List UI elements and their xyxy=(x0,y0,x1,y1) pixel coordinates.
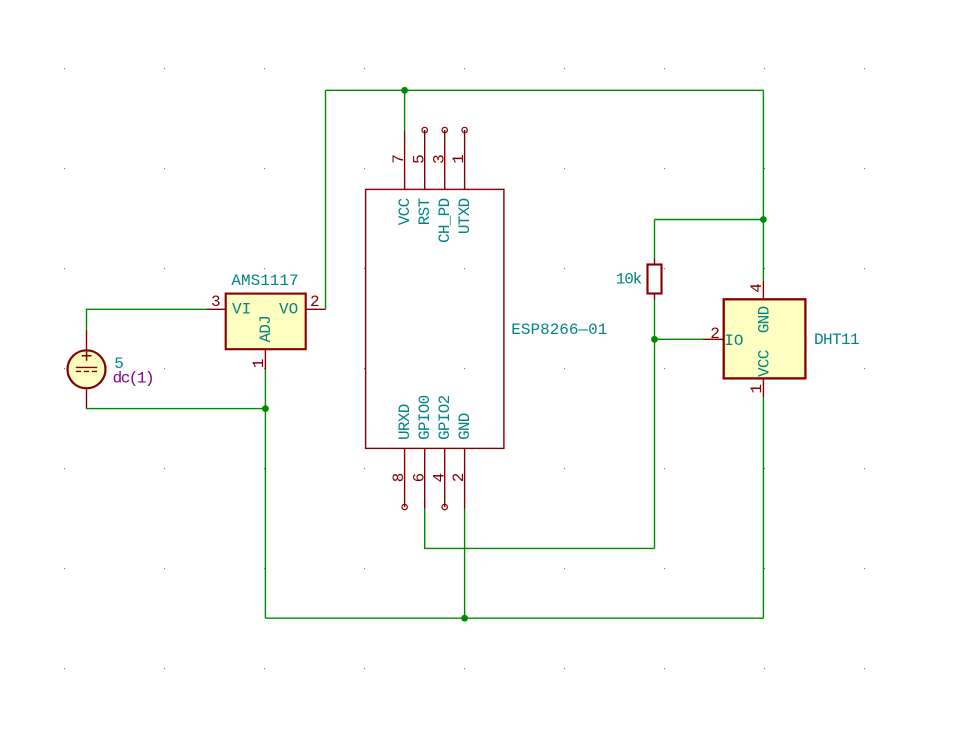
regulator U2 AMS1117 xyxy=(207,294,326,370)
svg-text:CH_PD: CH_PD xyxy=(436,198,454,243)
grid dots xyxy=(64,68,865,669)
svg-text:7: 7 xyxy=(390,154,408,164)
svg-text:UTXD: UTXD xyxy=(456,198,474,234)
junction at ADJ / source bottom xyxy=(262,405,269,412)
wire source bottom xyxy=(87,407,266,408)
svg-text:URXD: URXD xyxy=(396,404,414,440)
wire GPIO0 drop xyxy=(425,509,655,549)
svg-text:5: 5 xyxy=(410,154,428,164)
svg-text:1: 1 xyxy=(450,154,468,164)
svg-text:GND: GND xyxy=(456,413,474,440)
junction at bottom bus / ESP GND xyxy=(461,615,468,622)
svg-text:AMS1117: AMS1117 xyxy=(231,272,298,290)
svg-text:2: 2 xyxy=(710,325,720,343)
wire right riser xyxy=(762,90,764,219)
svg-text:dc(1): dc(1) xyxy=(113,369,154,387)
svg-text:1: 1 xyxy=(250,359,268,369)
svg-text:10k: 10k xyxy=(616,270,642,288)
wire ESP GND drop xyxy=(464,509,466,619)
svg-text:GPIO2: GPIO2 xyxy=(436,395,454,440)
wire top bus xyxy=(326,89,764,91)
wire ESP VCC drop xyxy=(404,90,406,131)
svg-text:GND: GND xyxy=(755,306,773,333)
svg-text:2: 2 xyxy=(450,473,468,483)
junction at resistor / IO xyxy=(651,336,658,343)
svg-text:IO: IO xyxy=(724,332,743,350)
voltage source V1 xyxy=(68,330,106,408)
svg-text:ESP8266—01: ESP8266—01 xyxy=(511,321,607,339)
sensor U3 DHT11 xyxy=(703,281,805,397)
junction at top bus / ESP VCC xyxy=(401,87,408,94)
wire left bottom drop xyxy=(264,409,266,619)
svg-text:VI: VI xyxy=(232,301,251,319)
wire source to VI xyxy=(87,309,208,330)
svg-text:RST: RST xyxy=(416,198,434,225)
wire bottom bus xyxy=(265,617,763,619)
IC U1 ESP8266-01 xyxy=(366,127,504,509)
svg-text:4: 4 xyxy=(430,473,448,483)
svg-text:6: 6 xyxy=(410,473,428,483)
svg-text:ADJ: ADJ xyxy=(257,316,275,343)
wire IO link xyxy=(655,338,704,340)
wire resistor bottom run xyxy=(654,300,656,549)
svg-text:VO: VO xyxy=(279,301,298,319)
svg-text:VCC: VCC xyxy=(396,198,414,225)
svg-text:8: 8 xyxy=(390,473,408,483)
junction at right riser / resistor link xyxy=(760,216,767,223)
wire AMS VO riser xyxy=(325,90,327,309)
wire resistor top drop xyxy=(654,220,656,259)
svg-text:2: 2 xyxy=(310,293,320,311)
svg-text:DHT11: DHT11 xyxy=(814,331,859,349)
svg-text:3: 3 xyxy=(430,154,448,164)
svg-text:1: 1 xyxy=(748,384,766,394)
resistor R1 10k xyxy=(648,259,662,300)
wire ADJ drop xyxy=(264,370,266,409)
wire DHT GND drop xyxy=(762,220,764,282)
wire resistor top link xyxy=(655,219,764,221)
svg-text:4: 4 xyxy=(748,283,766,293)
svg-text:VCC: VCC xyxy=(755,350,773,377)
svg-text:GPIO0: GPIO0 xyxy=(416,395,434,440)
wire DHT VCC drop xyxy=(762,397,764,618)
svg-text:3: 3 xyxy=(211,293,221,311)
